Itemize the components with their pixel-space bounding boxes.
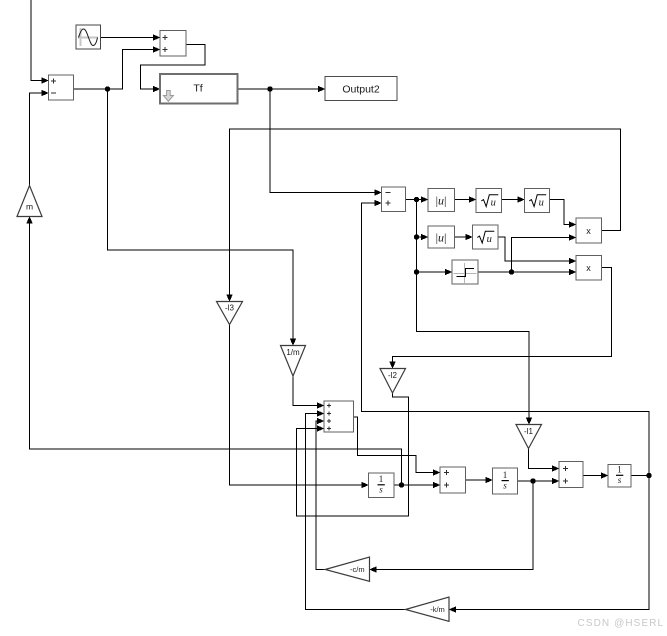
sum block Sum4 four plus inputs bbox=[324, 401, 354, 432]
sum block Sum1 plus plus bbox=[160, 31, 186, 57]
wire gain -l1 output down to sumB input1 bbox=[529, 449, 558, 469]
wire J6 up to product x1 input2 bbox=[512, 238, 575, 273]
junction J3 bbox=[414, 197, 419, 202]
integrator block 1/s #2 bbox=[493, 468, 518, 494]
wire sumB output to integrator3 bbox=[583, 475, 606, 477]
relay block bbox=[452, 260, 478, 284]
wire J8 up left to gain m input bbox=[30, 219, 402, 486]
wire J2 down to sum3 minus input bbox=[270, 89, 380, 193]
svg-text:u: u bbox=[539, 198, 544, 209]
wire J3 down to abs2 input bbox=[417, 200, 427, 238]
wire sqrt1 to sqrt2 bbox=[502, 199, 523, 201]
svg-text:-l2: -l2 bbox=[388, 371, 397, 380]
output port block Output2 bbox=[325, 77, 397, 101]
sum block SumA plus plus bbox=[440, 467, 466, 493]
sum block Sum2 plus minus bbox=[49, 75, 74, 100]
junction J8 bbox=[399, 482, 404, 487]
wire J1 down and right to gain 1/m input bbox=[108, 89, 294, 344]
wire J9 down to gain -c/m input bbox=[372, 481, 534, 570]
wire abs1 to sqrt1 bbox=[455, 199, 475, 201]
svg-text:-c/m: -c/m bbox=[350, 565, 365, 574]
svg-text:-l1: -l1 bbox=[524, 427, 533, 436]
gain -c/m triangle pointing left bbox=[325, 557, 369, 581]
gain m output wire to sum2 minus input bbox=[30, 93, 48, 186]
svg-text:m: m bbox=[26, 202, 33, 212]
junction J4 bbox=[414, 234, 419, 239]
product block x1 bbox=[576, 218, 602, 243]
wire sum2 output to junction J1 and up to sum1 input2 bbox=[74, 50, 159, 90]
svg-text:|u|: |u| bbox=[436, 231, 447, 245]
svg-text:CSDN @HSERL: CSDN @HSERL bbox=[578, 618, 665, 629]
sum block SumB plus plus bbox=[559, 462, 583, 488]
gain -l1 triangle pointing down bbox=[516, 425, 542, 449]
transfer function block Tf bbox=[160, 74, 238, 104]
junction J7 bbox=[646, 473, 651, 478]
svg-text:1: 1 bbox=[503, 470, 508, 480]
wire J4 down to relay input bbox=[417, 237, 451, 272]
svg-text:s: s bbox=[503, 481, 507, 491]
svg-text:s: s bbox=[379, 485, 383, 495]
svg-text:1/m: 1/m bbox=[286, 348, 300, 357]
wire feedback from J7 up along y412 to sum3 plus input bbox=[362, 203, 650, 476]
wire J7 down to gain -k/m input bbox=[451, 476, 649, 610]
svg-text:u: u bbox=[487, 234, 492, 245]
integrator block 1/s #1 bbox=[369, 473, 395, 498]
wire gain -l3 output down to integrator 1 input bbox=[230, 325, 367, 486]
wire J5 down right down into gain -l1 bbox=[417, 272, 530, 423]
svg-text:s: s bbox=[618, 475, 622, 485]
svg-text:|u|: |u| bbox=[436, 194, 447, 208]
wire sine to sum1 input1 bbox=[101, 37, 159, 39]
gain -l3 triangle pointing down bbox=[217, 302, 243, 325]
wire relay output to junction J6 to product x2 input2 bbox=[478, 271, 574, 273]
wire integrator3 output to junction J7 bbox=[631, 475, 649, 477]
wire sumA output to integrator2 bbox=[466, 479, 491, 481]
wire gain -l2 output down around to sum4 input4 bbox=[297, 393, 409, 516]
wire product x2 output down along to gain -l2 bbox=[393, 268, 612, 367]
svg-text:u: u bbox=[491, 198, 496, 209]
wire gain -k/m output up to sum4 input2 bbox=[306, 414, 406, 610]
svg-text:x: x bbox=[586, 226, 591, 236]
svg-text:x: x bbox=[586, 263, 591, 273]
integrator block 1/s #3 bbox=[608, 465, 631, 488]
sqrt block sqrt3 bbox=[473, 225, 499, 249]
sum block Sum3 minus plus bbox=[382, 187, 406, 212]
gain 1/m triangle pointing down bbox=[281, 346, 306, 377]
svg-text:1: 1 bbox=[617, 465, 622, 475]
wire sqrt3 to product x2 input1 bbox=[498, 237, 574, 261]
wire Tf output to junction J2 to Output2 bbox=[238, 88, 324, 90]
wire sum1 output to Tf input bbox=[141, 45, 206, 90]
wire top-left into sum2 plus input bbox=[31, 0, 47, 81]
abs block U2 |u| bbox=[428, 226, 455, 248]
wire sum4 output stepping down to sumA input1 bbox=[354, 417, 439, 473]
svg-text:1: 1 bbox=[379, 474, 384, 484]
wire sqrt2 to product x1 input1 bbox=[550, 200, 575, 225]
junction J9 bbox=[530, 478, 535, 483]
svg-text:-l3: -l3 bbox=[225, 304, 234, 313]
wire product x1 output up along y129 and down into gain -l3 bbox=[230, 129, 621, 300]
gain -k/m triangle pointing left bbox=[406, 597, 450, 621]
gain -l2 triangle pointing down bbox=[380, 369, 406, 394]
junction J1 bbox=[105, 86, 110, 91]
svg-text:Tf: Tf bbox=[193, 83, 202, 95]
junction J6 bbox=[509, 269, 514, 274]
product block x2 bbox=[576, 256, 602, 281]
wire abs2 to sqrt3 bbox=[455, 236, 471, 238]
sqrt block sqrt2 bbox=[525, 189, 550, 213]
junction J5 bbox=[414, 269, 419, 274]
gain m triangle pointing up bbox=[17, 186, 42, 217]
wire gain 1/m output down to sum4 input1 bbox=[293, 376, 322, 406]
svg-text:-k/m: -k/m bbox=[430, 605, 445, 614]
sine wave source block bbox=[76, 25, 101, 49]
svg-text:Output2: Output2 bbox=[342, 84, 380, 96]
wire integrator1 output to junction J8 to sumA input2 bbox=[394, 484, 438, 486]
wire integrator2 output to junction J9 to sumB input2 bbox=[518, 480, 558, 482]
wire gain -c/m output up to sum4 input3 bbox=[316, 421, 325, 570]
junction J2 bbox=[267, 86, 272, 91]
wire sum3 output to abs1 bbox=[406, 199, 427, 201]
sqrt block sqrt1 bbox=[476, 189, 502, 213]
abs block U1 |u| bbox=[428, 189, 455, 212]
